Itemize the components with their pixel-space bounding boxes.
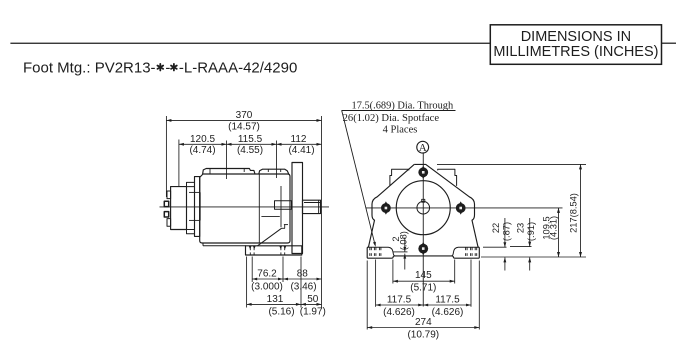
horizontal rule through header (10, 42, 676, 44)
svg-text:117.5: 117.5 (387, 295, 412, 306)
svg-text:(4.55): (4.55) (237, 145, 263, 156)
bolt hole bottom (418, 242, 428, 255)
svg-text:370: 370 (236, 110, 253, 121)
shaft (303, 200, 321, 213)
right view dimensions (367, 164, 586, 340)
keyway (422, 199, 425, 202)
svg-text:(.08): (.08) (398, 231, 408, 250)
svg-text:(4.74): (4.74) (189, 145, 215, 156)
svg-text:274: 274 (415, 317, 432, 328)
dim 370 (166, 119, 321, 121)
svg-text:22: 22 (491, 223, 501, 233)
foot spotface ticks left (369, 247, 371, 250)
dim 145 (392, 260, 394, 284)
right view: pump front elevation (366, 152, 563, 306)
svg-text:A: A (419, 142, 427, 154)
dim 274 (366, 261, 368, 330)
pilot circle (396, 181, 450, 235)
svg-text:4 Places: 4 Places (383, 124, 418, 135)
svg-text:117.5: 117.5 (435, 295, 460, 306)
horizontal centerline (366, 207, 563, 209)
svg-text:(3.000): (3.000) (251, 281, 283, 292)
extension lines (165, 116, 167, 197)
svg-text:145: 145 (415, 270, 432, 281)
svg-text:120.5: 120.5 (190, 134, 215, 145)
svg-text:(4.626): (4.626) (432, 307, 464, 318)
dim 76.2 / 88 (252, 278, 321, 280)
svg-text:23: 23 (516, 223, 526, 233)
svg-text:DIMENSIONS IN: DIMENSIONS IN (521, 29, 631, 45)
svg-text:131: 131 (267, 294, 284, 305)
svg-text:(1.97): (1.97) (300, 306, 326, 317)
svg-text:(4.31): (4.31) (549, 216, 559, 240)
svg-text:50: 50 (307, 294, 319, 305)
top cap 1 (203, 169, 255, 175)
foot gusset diagonal (258, 228, 282, 246)
svg-text:88: 88 (297, 269, 309, 280)
feet outline (367, 247, 479, 258)
flange outline (414, 164, 478, 247)
svg-text:112: 112 (291, 134, 307, 145)
top lug right (438, 169, 457, 186)
foot bolt slots (249, 246, 251, 250)
main body (200, 174, 290, 243)
shaft circle (417, 201, 430, 214)
svg-text:-: - (165, 60, 170, 77)
svg-text:217(8.54): 217(8.54) (569, 193, 579, 233)
datum A balloon (417, 141, 429, 154)
svg-text:MILLIMETRES (INCHES): MILLIMETRES (INCHES) (493, 44, 658, 60)
dim 131 / 50 (247, 303, 322, 305)
body step top (187, 182, 195, 186)
dim 120.5 / 115.5 / 112 (179, 143, 322, 145)
bottom cap (203, 245, 246, 247)
svg-text:Foot Mtg.: PV2R13-: Foot Mtg.: PV2R13- (23, 60, 156, 77)
bolt hole top (418, 166, 428, 179)
svg-text:17.5(.689) Dia. Through: 17.5(.689) Dia. Through (352, 101, 454, 112)
rear cover sub-steps (167, 191, 171, 199)
svg-text:(14.57): (14.57) (228, 122, 260, 133)
top lug left (390, 169, 409, 186)
svg-text:(10.79): (10.79) (407, 330, 439, 341)
mounting flange plate (292, 163, 303, 254)
svg-text:(.91): (.91) (526, 222, 536, 241)
interior joint lines (199, 192, 201, 220)
svg-text:(4.626): (4.626) (383, 307, 415, 318)
bolt hole right (456, 201, 466, 214)
body step bottom (187, 230, 195, 234)
top cap 2 (259, 169, 289, 174)
svg-text:76.2: 76.2 (257, 269, 277, 280)
rear port bumps (164, 201, 168, 206)
hole callout text (342, 101, 456, 247)
left view dimensions (166, 110, 325, 317)
dim 117.5 / 117.5 (375, 260, 377, 307)
svg-text:-L-RAAA-42/4290: -L-RAAA-42/4290 (179, 60, 297, 77)
rear cover (171, 187, 187, 230)
shaft coupling boss (275, 201, 292, 210)
left view: pump side elevation (160, 163, 330, 256)
svg-text:(5.71): (5.71) (410, 283, 436, 294)
foot bracket (246, 246, 302, 255)
svg-text:(3.46): (3.46) (290, 281, 316, 292)
centerline left view (160, 206, 330, 208)
rear body plate (195, 177, 200, 237)
vertical centerline (422, 152, 424, 306)
foot spotface ticks right (465, 247, 467, 250)
svg-text:(4.41): (4.41) (288, 145, 314, 156)
svg-text:26(1.02) Dia. Spotface: 26(1.02) Dia. Spotface (343, 113, 440, 124)
svg-text:115.5: 115.5 (238, 134, 263, 145)
leader line to foot hole (342, 111, 375, 245)
svg-text:(.87): (.87) (501, 222, 511, 241)
dim 217 (8.54) (437, 163, 586, 165)
bolt hole left (381, 201, 391, 214)
header box: DIMENSIONS IN MILLIMETRES (INCHES) (490, 25, 661, 65)
svg-text:(5.16): (5.16) (268, 306, 294, 317)
